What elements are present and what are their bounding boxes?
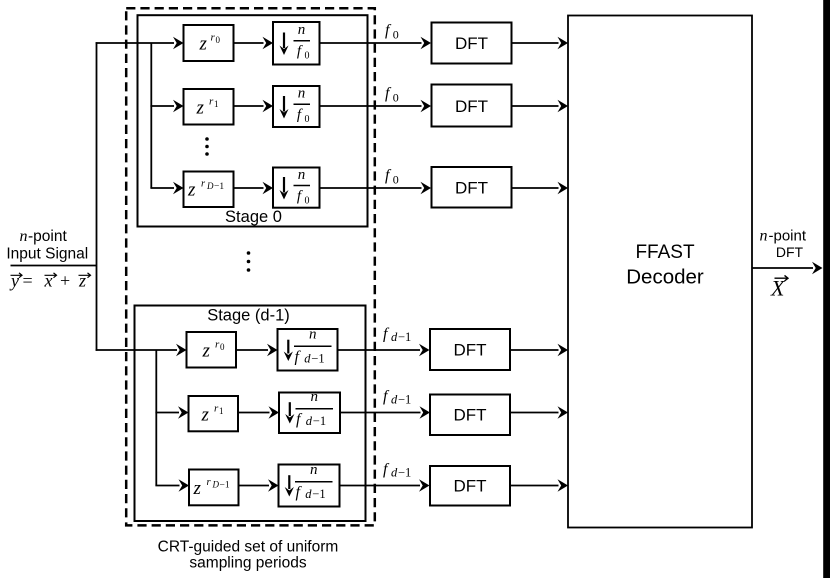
box z^rD-1 staged xyxy=(189,470,239,506)
output label X vector xyxy=(770,275,788,300)
wire feed stage0 row2 xyxy=(150,100,183,112)
svg-text:n: n xyxy=(760,228,768,245)
svg-text:z: z xyxy=(202,341,211,362)
dots stage d-1 inner xyxy=(211,441,215,460)
svg-text:n: n xyxy=(309,327,317,343)
svg-text:z: z xyxy=(187,180,196,201)
svg-text:d: d xyxy=(306,414,313,428)
svg-text:X: X xyxy=(770,276,786,301)
svg-text:0: 0 xyxy=(393,91,399,105)
downsampler n/f0 stage0 row1 xyxy=(273,22,320,65)
DFT box stage0 row1 xyxy=(432,23,512,64)
svg-text:0: 0 xyxy=(305,196,310,207)
input label n-point xyxy=(20,228,68,245)
svg-text:z: z xyxy=(196,98,205,119)
wire feed stage0 row1 xyxy=(96,37,184,49)
wire z to ds stage0 row3 xyxy=(234,182,273,194)
input label y = x + z vectors xyxy=(9,271,91,291)
wire ds to DFT staged row1 + fd-1 label xyxy=(338,326,430,357)
svg-text:f: f xyxy=(385,85,392,102)
svg-text:0: 0 xyxy=(393,173,399,187)
DFT box stage0 row3 xyxy=(432,167,512,208)
wire branch stage0 xyxy=(150,43,152,188)
wire ds to DFT stage0 row1 + f0 label xyxy=(320,22,432,49)
svg-text:0: 0 xyxy=(220,342,225,352)
svg-text:f: f xyxy=(385,167,392,184)
wire DFT to decoder stage0 row2 xyxy=(512,100,569,112)
svg-text:f: f xyxy=(383,388,390,405)
wire z to ds staged row2 xyxy=(238,406,279,418)
svg-text:D: D xyxy=(212,480,220,490)
caption CRT-guided xyxy=(158,539,339,572)
wire feed staged row3 xyxy=(155,479,189,491)
svg-text:FFAST: FFAST xyxy=(635,242,695,263)
wire output n-point DFT xyxy=(752,262,823,274)
wire z to ds staged row1 xyxy=(236,344,278,356)
dots stage0 inner xyxy=(205,137,209,156)
svg-text:-point: -point xyxy=(28,228,67,245)
wire feed staged row2 xyxy=(155,406,188,418)
svg-text:f: f xyxy=(383,326,390,343)
svg-text:z: z xyxy=(193,478,202,499)
svg-text:n: n xyxy=(311,389,319,405)
svg-text:−1: −1 xyxy=(220,481,230,491)
svg-text:z: z xyxy=(199,34,208,55)
svg-text:CRT-guided set of uniform: CRT-guided set of uniform xyxy=(158,539,339,556)
svg-text:n: n xyxy=(310,462,318,478)
box z^r1 stage0 xyxy=(184,89,234,125)
DFT box staged row1 xyxy=(430,329,510,370)
wire DFT to decoder staged row1 xyxy=(510,344,568,356)
svg-text:1: 1 xyxy=(214,99,219,109)
svg-text:z: z xyxy=(201,405,210,426)
svg-text:Input Signal: Input Signal xyxy=(6,246,88,263)
downsampler n/fd-1 staged row2 xyxy=(279,389,340,433)
svg-text:=: = xyxy=(23,271,33,291)
svg-text:DFT: DFT xyxy=(455,34,488,53)
wire ds to DFT stage0 row2 + f0 label xyxy=(320,85,432,112)
stage d-1 box xyxy=(135,306,366,522)
svg-text:−1: −1 xyxy=(311,352,324,366)
wire DFT to decoder stage0 row3 xyxy=(512,182,569,194)
wire feed staged row1 xyxy=(96,344,187,356)
svg-text:f: f xyxy=(385,22,392,39)
svg-text:f: f xyxy=(383,461,390,478)
svg-text:d: d xyxy=(391,393,398,407)
DFT box staged row2 xyxy=(430,395,510,436)
downsampler n/f0 stage0 row2 xyxy=(273,86,320,128)
svg-text:DFT: DFT xyxy=(453,406,486,425)
downsampler n/f0 stage0 row3 xyxy=(273,167,320,208)
box z^r1 staged xyxy=(189,396,239,431)
svg-text:d: d xyxy=(391,330,398,344)
svg-text:sampling periods: sampling periods xyxy=(189,555,306,572)
wire z to ds staged row3 xyxy=(239,479,279,491)
svg-text:x: x xyxy=(44,271,53,291)
svg-text:−1: −1 xyxy=(398,393,411,407)
input label Input Signal xyxy=(6,246,88,263)
svg-text:0: 0 xyxy=(305,51,310,62)
wire z to ds stage0 row2 xyxy=(234,100,274,112)
svg-text:y: y xyxy=(9,271,19,291)
DFT box stage0 row2 xyxy=(432,85,512,127)
svg-text:0: 0 xyxy=(393,28,399,42)
svg-text:n: n xyxy=(298,86,306,102)
svg-text:DFT: DFT xyxy=(455,97,488,116)
wire DFT to decoder staged row2 xyxy=(510,406,568,418)
stage 0 label xyxy=(225,208,282,226)
svg-text:−1: −1 xyxy=(214,182,224,192)
wire branch staged xyxy=(155,350,157,486)
output label n-point xyxy=(760,228,807,245)
wire ds to DFT staged row2 + fd-1 label xyxy=(340,388,430,419)
svg-text:Decoder: Decoder xyxy=(626,266,704,289)
input label fraction bar xyxy=(11,265,97,267)
output label DFT xyxy=(776,244,804,260)
svg-text:1: 1 xyxy=(219,406,224,416)
svg-text:+: + xyxy=(60,271,70,291)
svg-text:0: 0 xyxy=(216,35,221,45)
svg-text:DFT: DFT xyxy=(455,179,488,198)
svg-text:n: n xyxy=(298,22,306,38)
box z^rD-1 stage0 xyxy=(184,172,234,208)
svg-text:−1: −1 xyxy=(398,466,411,480)
FFAST decoder box xyxy=(568,16,752,528)
wire ds to DFT staged row3 + fd-1 label xyxy=(340,461,430,492)
svg-text:d: d xyxy=(304,352,311,366)
svg-text:Stage 0: Stage 0 xyxy=(225,208,282,226)
box z^r0 stage0 xyxy=(184,25,234,61)
svg-text:−1: −1 xyxy=(313,414,326,428)
svg-text:DFT: DFT xyxy=(453,341,486,360)
wire input vertical bus xyxy=(96,42,98,351)
svg-text:−1: −1 xyxy=(312,487,325,501)
black bar right edge xyxy=(823,0,830,578)
svg-text:n: n xyxy=(20,228,28,245)
svg-text:Stage (d-1): Stage (d-1) xyxy=(207,307,290,325)
wire feed stage0 row3 xyxy=(150,182,183,194)
svg-text:d: d xyxy=(305,487,312,501)
DFT box staged row3 xyxy=(430,466,510,506)
dashed box CRT-guided set xyxy=(126,8,375,525)
svg-text:−1: −1 xyxy=(398,330,411,344)
svg-text:d: d xyxy=(391,466,398,480)
downsampler n/fd-1 staged row1 xyxy=(278,327,338,371)
stage 0 box xyxy=(138,15,368,226)
wire ds to DFT stage0 row3 + f0 label xyxy=(320,167,432,194)
stage d-1 label xyxy=(207,307,290,325)
svg-text:DFT: DFT xyxy=(453,477,486,496)
downsampler n/fd-1 staged row3 xyxy=(279,462,340,506)
svg-text:n: n xyxy=(298,167,306,183)
svg-text:DFT: DFT xyxy=(776,244,804,260)
svg-text:z: z xyxy=(78,271,86,291)
svg-text:D: D xyxy=(206,181,214,191)
wire DFT to decoder staged row3 xyxy=(510,479,568,491)
box z^r0 staged xyxy=(187,332,237,368)
svg-text:-point: -point xyxy=(769,228,807,245)
dots between stages xyxy=(247,251,251,272)
svg-text:0: 0 xyxy=(305,114,310,125)
wire z to ds stage0 row1 xyxy=(234,37,274,49)
wire DFT to decoder stage0 row1 xyxy=(512,37,569,49)
